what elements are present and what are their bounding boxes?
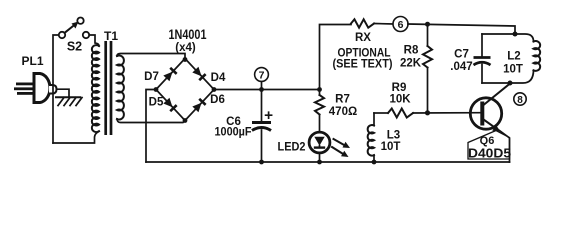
switch S2: [59, 18, 89, 39]
svg-text:10T: 10T: [503, 64, 523, 76]
svg-text:D7: D7: [144, 71, 159, 83]
wire R7 branch up to RX rail: [320, 25, 352, 90]
svg-text:S2: S2: [67, 40, 82, 54]
node tank bottom junction: [508, 81, 513, 86]
node R7 top junction: [317, 87, 322, 92]
capacitor C6: [252, 90, 272, 163]
svg-text:T1: T1: [104, 29, 118, 43]
svg-text:D4: D4: [211, 72, 226, 84]
node LED2 bottom: [317, 160, 322, 165]
node 6: [393, 17, 408, 32]
svg-text:LED2: LED2: [278, 142, 306, 154]
node bridge right: [212, 87, 217, 92]
chassis ground: [56, 97, 82, 105]
wire positive rail bridge to R7 junction: [214, 89, 320, 91]
transformer T1 core: [106, 41, 111, 135]
node L3 bottom: [372, 160, 377, 165]
wire bottom return to transformer primary: [53, 131, 99, 143]
wire R9 to base junction: [413, 112, 481, 114]
transformer T1 secondary winding: [117, 55, 124, 119]
svg-text:PL1: PL1: [21, 54, 43, 68]
resistor R9: [388, 109, 413, 118]
inductor L2: [534, 41, 541, 71]
svg-text:10T: 10T: [381, 141, 401, 153]
svg-text:10K: 10K: [389, 94, 411, 106]
svg-text:7: 7: [259, 70, 265, 82]
diode D5: [163, 98, 177, 112]
svg-text:R8: R8: [404, 44, 419, 56]
wire AC line: S2 left terminal down to bottom return: [53, 35, 59, 143]
wire RX to node 6: [374, 23, 393, 26]
tank circuit top wire: [482, 34, 534, 42]
wire emitter to ground rail: [500, 131, 510, 163]
node base junction: [425, 110, 430, 115]
resistor R8: [423, 24, 432, 113]
node bridge top: [183, 57, 188, 62]
svg-text:L3: L3: [387, 130, 400, 142]
svg-text:470Ω: 470Ω: [329, 106, 357, 118]
node 8: [514, 93, 526, 106]
node R8 top: [425, 22, 430, 27]
node C6 bottom: [259, 160, 264, 165]
svg-text:(SEE TEXT): (SEE TEXT): [333, 57, 393, 71]
node 7: [255, 68, 269, 90]
diode D6: [192, 98, 206, 112]
svg-text:R9: R9: [392, 82, 407, 94]
wire S2 to transformer primary top: [89, 35, 99, 46]
transformer T1 primary winding: [92, 45, 99, 132]
svg-text:C7: C7: [454, 49, 469, 61]
wire secondary bottom to bridge bottom vertex: [117, 119, 185, 123]
node tank feed: [513, 32, 518, 37]
svg-text:1000µF: 1000µF: [215, 127, 252, 139]
plug PL1: [14, 74, 57, 103]
node bridge left: [154, 87, 159, 92]
node junction C6 top: [259, 87, 264, 92]
svg-text:(x4): (x4): [175, 42, 196, 54]
svg-text:R7: R7: [335, 94, 350, 106]
wire bridge left vertex to ground rail: [146, 90, 156, 163]
node bridge bottom: [183, 118, 188, 123]
inductor L3: [368, 113, 374, 162]
svg-text:RX: RX: [355, 32, 371, 44]
label D40D5 box: [468, 131, 510, 160]
wire node 6 to tank feed corner: [408, 24, 515, 34]
wire L3 to R9: [374, 112, 388, 114]
resistor R7: [315, 95, 324, 115]
svg-text:.047: .047: [450, 61, 472, 73]
capacitor C7: [474, 34, 491, 83]
resistor RX: [351, 19, 374, 27]
bridge rectifier diamond: [156, 59, 214, 121]
ground rail (bottom): [146, 161, 510, 163]
tank circuit bottom wire: [482, 70, 534, 83]
wire secondary top to bridge top vertex: [117, 54, 185, 59]
wire plug to chassis ground: [57, 89, 70, 97]
svg-text:D6: D6: [210, 94, 225, 106]
svg-text:D5: D5: [149, 97, 164, 109]
svg-text:8: 8: [517, 95, 523, 106]
diode D7: [163, 67, 177, 81]
svg-text:L2: L2: [507, 51, 520, 63]
wire collector to tank: [484, 84, 511, 106]
LED2: [309, 132, 350, 162]
diode D4: [192, 67, 206, 81]
svg-text:6: 6: [398, 19, 404, 31]
svg-text:1N4001: 1N4001: [169, 27, 207, 42]
transistor Q6: [470, 98, 501, 132]
svg-text:D40D5: D40D5: [468, 146, 511, 161]
svg-text:22K: 22K: [400, 57, 422, 69]
